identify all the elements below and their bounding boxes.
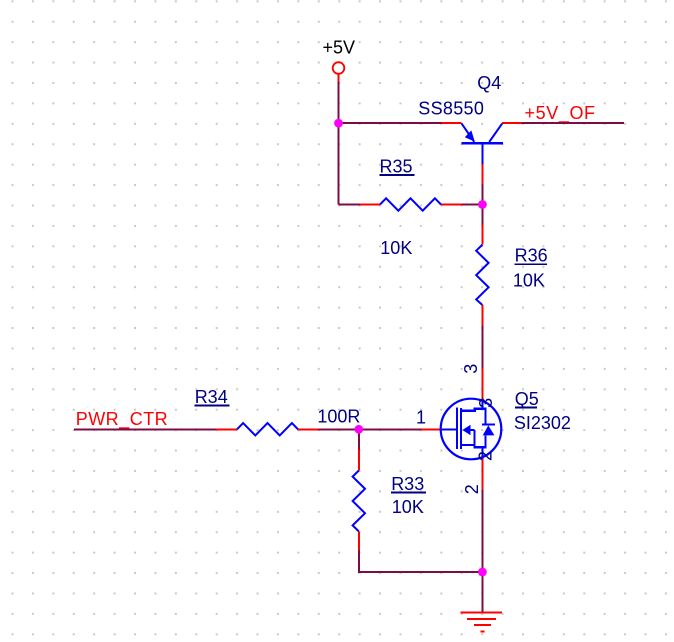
svg-text:Q5: Q5 <box>515 389 539 409</box>
pin3 inner stub <box>481 399 483 409</box>
ground <box>461 612 502 631</box>
emitter lead <box>462 123 475 141</box>
power port +5V <box>323 38 356 83</box>
svg-text:R35: R35 <box>380 157 413 177</box>
base lead <box>481 144 483 164</box>
pin 2 source <box>481 459 483 490</box>
diode lower lead <box>484 435 486 447</box>
svg-text:+5V_OF: +5V_OF <box>525 103 596 124</box>
wire R35 to node B <box>461 204 482 206</box>
body vertical <box>473 430 475 447</box>
svg-text:SS8550: SS8550 <box>418 99 484 119</box>
svg-text:+5V: +5V <box>323 38 356 58</box>
base pin <box>481 164 483 185</box>
svg-text:10K: 10K <box>513 271 545 291</box>
body tail <box>470 429 475 431</box>
channel bar <box>460 408 462 449</box>
svg-text:2: 2 <box>476 451 496 461</box>
zigzag <box>380 198 441 210</box>
bottom pin <box>481 305 483 326</box>
pin 1 gate <box>421 428 442 430</box>
transistor Q4 <box>418 73 521 185</box>
svg-text:3: 3 <box>461 364 481 374</box>
pin 3 drain <box>481 368 483 399</box>
left pin <box>216 428 237 430</box>
svg-text:R36: R36 <box>515 245 548 265</box>
svg-text:PWR_CTR: PWR_CTR <box>76 409 169 430</box>
right pin <box>441 204 461 206</box>
resistor R34 <box>195 387 361 436</box>
wire +5V_OF rail <box>521 122 624 124</box>
wire left rail to R35 <box>339 204 361 206</box>
wire R34 to node D and Q5 gate <box>319 428 421 430</box>
pin2 inner stub <box>481 447 483 459</box>
svg-text:100R: 100R <box>317 406 360 426</box>
svg-text:R34: R34 <box>195 387 228 407</box>
zigzag <box>237 423 298 435</box>
wire +5V vertical <box>338 82 340 205</box>
zigzag <box>476 245 488 305</box>
wire top rail to Q4 emitter <box>338 122 442 124</box>
resistor R35 <box>360 157 461 258</box>
svg-text:10K: 10K <box>380 238 412 258</box>
resistor R36 <box>476 225 547 326</box>
wire PWR_CTR <box>74 428 216 430</box>
svg-text:10K: 10K <box>392 497 424 517</box>
drain path <box>461 409 485 424</box>
collector pin <box>502 122 521 124</box>
base bar <box>462 142 504 144</box>
wire node D down <box>358 429 360 449</box>
emitter arrow <box>465 130 475 141</box>
svg-text:SI2302: SI2302 <box>514 413 571 433</box>
wire node B vertical <box>481 185 483 225</box>
zigzag <box>353 471 365 532</box>
collector lead <box>489 124 502 142</box>
node D junction <box>354 425 363 434</box>
gate bar <box>456 408 458 449</box>
source tap <box>461 444 474 446</box>
bottom connect <box>473 446 486 448</box>
wire R33 bottom to node C <box>359 551 483 572</box>
resistor R33 <box>353 449 426 550</box>
body arrow <box>462 425 470 435</box>
gate lead <box>442 428 456 430</box>
node C junction <box>478 568 487 577</box>
mosfet Q5 <box>416 364 571 494</box>
emitter pin <box>442 122 462 124</box>
node A junction <box>334 119 343 128</box>
top pin <box>481 225 483 245</box>
svg-text:1: 1 <box>416 408 426 428</box>
svg-text:R33: R33 <box>391 474 424 494</box>
wire R36 to Q5 drain <box>481 326 483 369</box>
svg-text:Q4: Q4 <box>477 73 501 93</box>
diode cathode bar <box>482 423 495 425</box>
svg-text:2: 2 <box>462 484 482 494</box>
wire Q5 source to node C <box>481 490 483 612</box>
body circle <box>441 399 502 460</box>
right pin <box>298 428 319 430</box>
top pin <box>358 449 360 470</box>
left pin <box>360 204 380 206</box>
bottom pin <box>358 531 360 550</box>
svg-text:3: 3 <box>476 398 496 408</box>
diode triangle <box>483 425 495 435</box>
node B junction <box>478 200 487 209</box>
